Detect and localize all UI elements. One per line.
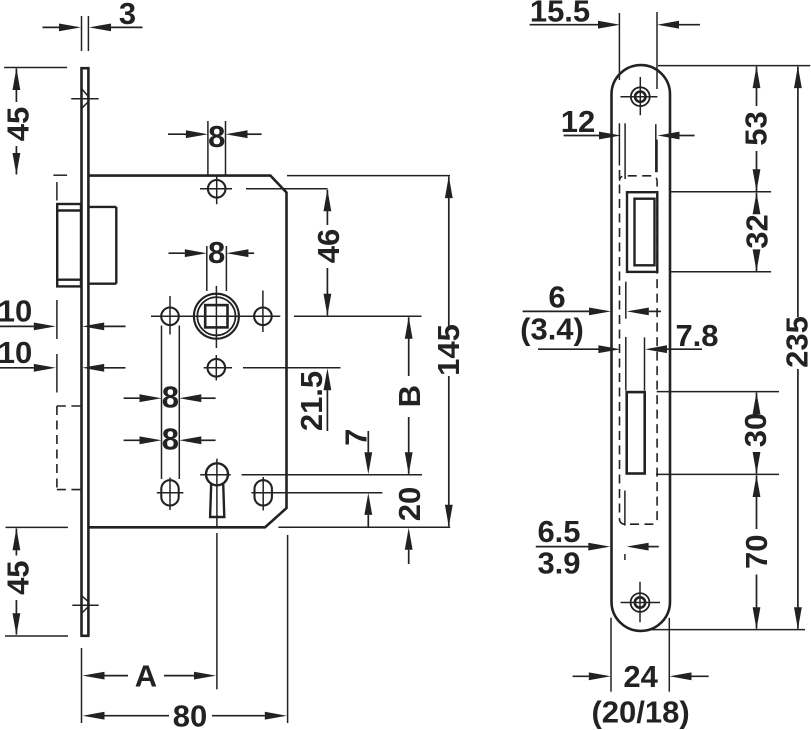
svg-text:A: A bbox=[135, 658, 157, 693]
left slot 8mm bbox=[157, 478, 184, 511]
dim 8 left hole bbox=[124, 326, 216, 480]
svg-text:32: 32 bbox=[740, 214, 775, 248]
latch cutout inner bbox=[635, 199, 655, 266]
lock case dashed outline (behind plate) bbox=[620, 170, 658, 524]
striking plate outline bbox=[612, 65, 671, 631]
dim (3.4) bbox=[520, 312, 620, 354]
dim B bbox=[392, 317, 427, 475]
dim 235 bbox=[780, 66, 811, 629]
dim 20 bbox=[392, 487, 427, 564]
dim 15.5 bbox=[530, 0, 700, 29]
dead bolt cutout bbox=[627, 392, 645, 473]
svg-text:3.9: 3.9 bbox=[537, 546, 580, 581]
dim 145 bbox=[278, 176, 466, 528]
dim 10 dead bolt projection bbox=[0, 335, 126, 393]
dim 7 bbox=[338, 429, 373, 528]
svg-text:45: 45 bbox=[1, 107, 36, 141]
dim 21.5 bbox=[294, 368, 331, 431]
dim 32 bbox=[740, 192, 775, 271]
dim 46 bbox=[311, 189, 346, 315]
svg-text:80: 80 bbox=[173, 698, 207, 730]
dim 45 top bbox=[1, 68, 68, 176]
top fixing hole 8mm bbox=[200, 177, 328, 205]
dim 24 bbox=[573, 618, 709, 694]
top screw hole bbox=[620, 77, 657, 115]
keyhole centerline bbox=[216, 459, 218, 690]
slot center extension line bbox=[251, 492, 382, 494]
dim 8 top hole bbox=[168, 119, 262, 176]
svg-text:B: B bbox=[392, 385, 427, 407]
dead bolt cutout bottom extension bbox=[656, 473, 779, 475]
svg-text:6: 6 bbox=[548, 280, 565, 315]
svg-text:70: 70 bbox=[739, 535, 774, 569]
plate top extension bbox=[658, 65, 810, 67]
bottom screw hole bbox=[621, 582, 660, 622]
latch bolt body bbox=[90, 207, 117, 284]
svg-text:8: 8 bbox=[162, 422, 179, 457]
plate bottom extension bbox=[650, 629, 806, 631]
label (20/18) bbox=[591, 695, 689, 730]
svg-text:8: 8 bbox=[208, 235, 225, 270]
keyhole center extension line bbox=[200, 474, 422, 476]
svg-text:8: 8 bbox=[208, 119, 225, 154]
latch face extension above bbox=[56, 182, 58, 201]
latch cutout edge extensions bbox=[625, 123, 656, 179]
dim A bbox=[82, 648, 217, 723]
svg-text:30: 30 bbox=[738, 413, 773, 447]
dim 6.5/3.9 bbox=[536, 514, 659, 581]
right slot 8mm bbox=[255, 477, 272, 511]
latch cutout bottom extension bbox=[671, 271, 772, 273]
dim 6 bbox=[523, 280, 661, 316]
svg-text:46: 46 bbox=[311, 229, 346, 263]
dim 30 bbox=[738, 392, 773, 474]
latch cutout top extension bbox=[671, 191, 772, 193]
extension line left (15.5/12) bbox=[618, 13, 620, 166]
lock case outline bbox=[88, 176, 286, 528]
dead bolt cutout top extension bbox=[657, 391, 779, 393]
svg-text:20: 20 bbox=[392, 487, 427, 521]
svg-text:8: 8 bbox=[162, 380, 179, 415]
dim 80 bbox=[83, 535, 288, 730]
latch bolt head bbox=[57, 204, 81, 286]
svg-text:45: 45 bbox=[1, 560, 36, 594]
faceplate break mark top bbox=[71, 89, 98, 108]
follower centerline horizontal bbox=[151, 315, 422, 317]
dim 10 latch projection bbox=[0, 294, 126, 340]
dead bolt (dashed, extended position) bbox=[57, 406, 81, 490]
svg-text:(3.4): (3.4) bbox=[520, 312, 584, 347]
svg-text:3: 3 bbox=[119, 0, 136, 31]
right hole 8mm bbox=[254, 291, 272, 333]
svg-text:235: 235 bbox=[780, 316, 811, 368]
dim 7.8 bbox=[645, 318, 719, 353]
extension lines for 7.8 bbox=[626, 282, 645, 391]
faceplate break mark bottom bbox=[72, 595, 98, 614]
lower hole 8mm (below follower) bbox=[204, 355, 341, 381]
svg-text:12: 12 bbox=[561, 104, 595, 139]
dim 3 (forend thickness) bbox=[43, 0, 143, 51]
dim 53 bbox=[739, 66, 774, 191]
dim 8 follower square bbox=[169, 235, 255, 291]
svg-text:24: 24 bbox=[623, 659, 658, 694]
dim 70 bbox=[739, 475, 774, 629]
dim 12 bbox=[561, 104, 695, 139]
extension line right (15.5/12) bbox=[656, 12, 658, 172]
latch cutout outer bbox=[627, 192, 657, 272]
svg-text:(20/18): (20/18) bbox=[591, 695, 689, 730]
svg-text:21.5: 21.5 bbox=[294, 371, 329, 431]
svg-text:10: 10 bbox=[0, 294, 32, 329]
svg-text:7.8: 7.8 bbox=[675, 318, 718, 353]
faceplate (lock forend, left view) bbox=[80, 68, 89, 636]
svg-text:10: 10 bbox=[0, 335, 32, 370]
svg-text:145: 145 bbox=[431, 324, 466, 376]
dim 8 left slot bbox=[124, 422, 216, 457]
svg-text:53: 53 bbox=[739, 111, 774, 145]
left hole 8mm bbox=[161, 296, 179, 335]
keyhole bbox=[206, 463, 228, 517]
svg-text:6.5: 6.5 bbox=[537, 514, 580, 549]
spindle follower 8mm square bbox=[194, 286, 239, 348]
dim 45 bottom bbox=[1, 527, 69, 636]
extension line for 6.5 bbox=[624, 491, 626, 561]
